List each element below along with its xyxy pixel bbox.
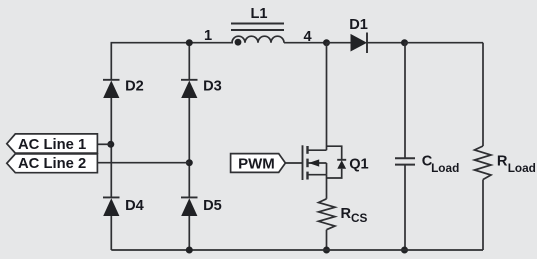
junction AC line 1 node bbox=[107, 141, 114, 148]
svg-text:AC Line 1: AC Line 1 bbox=[18, 137, 86, 153]
wire Q1 drain to node 4 bbox=[326, 43, 328, 151]
wire branch1 lower bbox=[110, 216, 112, 250]
svg-text:D3: D3 bbox=[203, 78, 222, 94]
wire top rail left bbox=[111, 42, 234, 44]
wire branch2 lower bbox=[188, 216, 190, 250]
capacitor C_Load bbox=[395, 153, 459, 175]
junction C_Load bottom bbox=[401, 247, 408, 254]
svg-text:D4: D4 bbox=[125, 198, 145, 214]
junction node 4 bbox=[323, 39, 330, 46]
transistor Q1 bbox=[303, 145, 369, 180]
junction output node bbox=[401, 39, 408, 46]
diode D4 bbox=[103, 197, 145, 216]
net label AC Line 2 bbox=[7, 154, 98, 173]
wire branch1 middle bbox=[110, 98, 112, 198]
wire C_Load top lead bbox=[404, 43, 406, 158]
svg-text:PWM: PWM bbox=[238, 156, 275, 173]
net label AC Line 1 bbox=[7, 134, 98, 153]
wire R_Load top lead bbox=[482, 43, 484, 146]
svg-text:AC Line 2: AC Line 2 bbox=[18, 156, 86, 172]
junction bottom branch2 bbox=[186, 247, 193, 254]
wire inductor to node 4 bbox=[284, 42, 327, 44]
wire RCS to bottom rail bbox=[326, 230, 328, 250]
wire C_Load bottom lead bbox=[404, 165, 406, 250]
svg-text:RLoad: RLoad bbox=[497, 153, 536, 174]
wire bottom rail bbox=[111, 249, 483, 251]
diode D5 bbox=[181, 197, 222, 216]
svg-text:D1: D1 bbox=[349, 17, 368, 33]
resistor R_Load bbox=[475, 146, 536, 180]
wire Q1 source to RCS bbox=[326, 175, 328, 199]
svg-text:CLoad: CLoad bbox=[422, 153, 459, 175]
svg-text:RCS: RCS bbox=[341, 206, 368, 225]
wire branch2 upper bbox=[188, 43, 190, 81]
net label PWM bbox=[231, 154, 286, 173]
wire node 4 to D1 anode bbox=[327, 42, 351, 44]
wire branch1 upper bbox=[110, 43, 112, 81]
svg-text:L1: L1 bbox=[250, 6, 267, 22]
wire top rail right bbox=[405, 42, 484, 44]
wire R_Load bottom lead bbox=[482, 180, 484, 251]
diode D1 bbox=[349, 17, 368, 53]
diode D3 bbox=[181, 78, 222, 98]
junction RCS bottom bbox=[323, 247, 330, 254]
diode D2 bbox=[103, 78, 144, 98]
junction AC line 2 node bbox=[186, 159, 193, 166]
wire branch2 middle bbox=[188, 98, 190, 198]
wire D1 cathode to output node bbox=[367, 42, 405, 44]
junction branch2 top bbox=[186, 39, 193, 46]
svg-text:D5: D5 bbox=[203, 198, 222, 214]
svg-text:Q1: Q1 bbox=[349, 157, 368, 173]
wire PWM to gate bbox=[285, 162, 302, 164]
wire AC Line 1 to bridge bbox=[97, 143, 110, 145]
resistor RCS bbox=[319, 199, 368, 230]
inductor L1 bbox=[231, 6, 284, 46]
wire AC Line 2 to bridge bbox=[97, 162, 189, 164]
svg-text:D2: D2 bbox=[125, 78, 144, 94]
svg-text:1: 1 bbox=[204, 28, 212, 44]
